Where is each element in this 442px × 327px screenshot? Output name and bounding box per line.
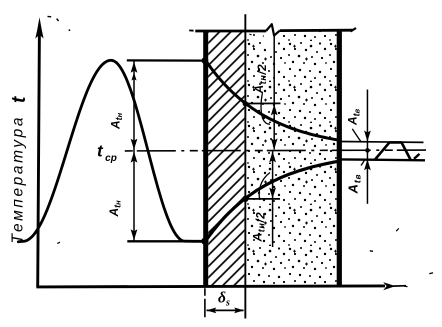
A_tv band lines right of wall — [340, 141, 424, 144]
dimension A_tn line — [133, 62, 135, 241]
layer boundary line — [244, 14, 246, 318]
node dots — [202, 57, 209, 64]
delta-s dimension below axis — [204, 288, 206, 317]
upper A_tn/2 tick + dimension — [246, 102, 281, 104]
svg-text:t: t — [9, 96, 30, 103]
stippled wall layer — [246, 31, 336, 286]
white gap under break — [263, 33, 281, 50]
node: mean temperature centerline t_cp — [125, 149, 426, 152]
A_tv dimension — [366, 90, 368, 204]
wire: trough level line — [127, 240, 203, 242]
lower A_tn/2 tick + dimension — [246, 198, 281, 200]
scan specks — [48, 15, 52, 17]
wall outer surface (thick) — [203, 31, 208, 287]
wall inner surface (thick) — [337, 30, 342, 286]
wire: damped wave upper envelope curve — [205, 60, 340, 141]
wire: peak level line — [127, 59, 204, 61]
wall top line — [195, 30, 266, 33]
break symbol — [266, 24, 280, 35]
svg-text:Температура: Температура — [10, 115, 27, 244]
y-axis (temperature axis) — [38, 33, 40, 287]
hatched wall layer delta-s — [208, 31, 244, 287]
wire: damped wave lower envelope curve — [205, 161, 340, 242]
inside damped wave — [375, 142, 411, 159]
wire: outside temperature wave (bell curve) — [18, 60, 203, 242]
x-axis — [36, 286, 385, 287]
